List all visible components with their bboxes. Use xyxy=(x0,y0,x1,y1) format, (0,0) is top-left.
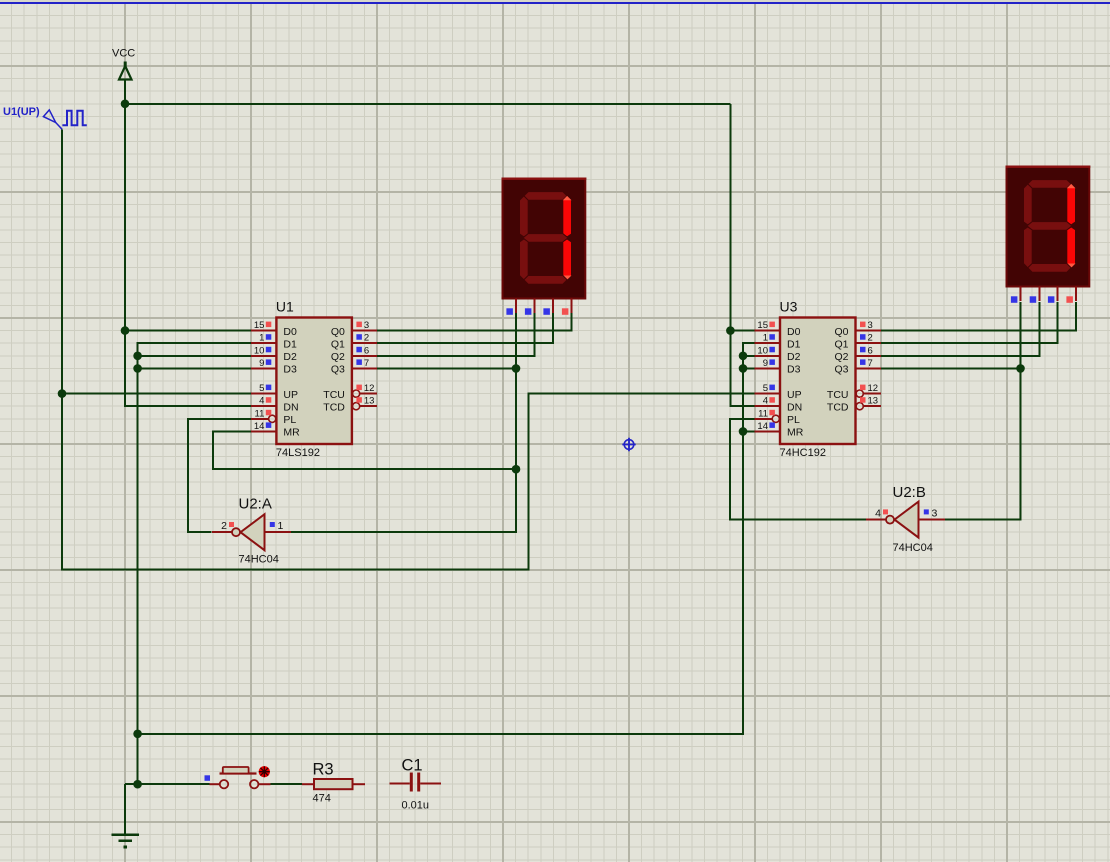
svg-text:Q1: Q1 xyxy=(331,338,345,350)
svg-text:74LS192: 74LS192 xyxy=(276,447,320,459)
wire U3 D3 (pin 9) branch xyxy=(743,367,756,369)
svg-text:PL: PL xyxy=(283,414,296,426)
svg-text:MR: MR xyxy=(787,427,804,439)
wire U3 Q1 (pin 2) to display2 pin 3 xyxy=(881,302,1058,343)
pin 5 UP of U3 xyxy=(755,383,802,401)
svg-text:Q1: Q1 xyxy=(834,338,848,350)
wire clock down, across y=569, up to U3 UP (pin 5) xyxy=(62,130,756,570)
svg-text:Q0: Q0 xyxy=(331,326,345,338)
pin 4 DN of U3 xyxy=(755,396,802,414)
wire ground stem xyxy=(124,784,126,834)
svg-text:6: 6 xyxy=(868,345,873,356)
svg-text:1: 1 xyxy=(259,333,264,344)
pin 13 TCD of U1 xyxy=(323,396,377,414)
pin 14 MR of U1 xyxy=(251,421,300,439)
svg-text:PL: PL xyxy=(787,414,800,426)
segment g of DISP1 xyxy=(523,234,568,243)
svg-text:U2:B: U2:B xyxy=(893,484,926,501)
ground xyxy=(112,835,139,847)
svg-text:9: 9 xyxy=(763,358,768,369)
svg-text:11: 11 xyxy=(758,408,768,419)
svg-text:TCU: TCU xyxy=(827,389,849,401)
pin 4 of DISP1 xyxy=(562,299,572,315)
wire U1 D1 (pin 1) + D-bus down to ground rail xyxy=(138,343,252,784)
power VCC xyxy=(112,48,135,80)
wire VCC down to U1 DN (pin 4) xyxy=(125,104,251,406)
wire U2:B input up to display2 pin 1 xyxy=(945,302,1021,520)
pin 1 D1 of U1 xyxy=(251,333,297,351)
svg-text:13: 13 xyxy=(364,396,375,407)
node junction (125,103.8) xyxy=(121,100,130,109)
svg-text:474: 474 xyxy=(313,793,331,805)
svg-text:14: 14 xyxy=(757,421,768,432)
svg-text:Q3: Q3 xyxy=(331,364,345,376)
svg-text:7: 7 xyxy=(868,358,873,369)
sheet border (blue) xyxy=(0,0,1110,4)
wire U3 PL (pin 11) to U2:B output xyxy=(730,419,867,520)
svg-text:15: 15 xyxy=(254,320,265,331)
svg-text:D3: D3 xyxy=(283,364,297,376)
node junction (62,393.6) xyxy=(58,389,67,398)
pin 2 of DISP1 xyxy=(525,299,535,315)
pin 4 DN of U1 xyxy=(251,396,298,414)
segment d of DISP2 xyxy=(1028,264,1071,273)
svg-text:C1: C1 xyxy=(402,757,423,775)
pin 10 D2 of U3 xyxy=(755,345,801,363)
segment a of DISP1 xyxy=(524,192,567,201)
display DISP1 7-segment xyxy=(502,178,587,315)
svg-text:1: 1 xyxy=(763,333,768,344)
svg-text:UP: UP xyxy=(787,389,802,401)
svg-text:2: 2 xyxy=(221,520,227,532)
svg-text:11: 11 xyxy=(255,408,265,419)
svg-text:D3: D3 xyxy=(787,364,801,376)
wire U3 Q0 (pin 3) to display2 pin 4 xyxy=(881,302,1077,331)
inverter gate U2:A 74HC04 xyxy=(212,496,291,566)
resistor R3 474 xyxy=(302,761,365,805)
wire U3 D1 + D-bus down and across bottom y=734 xyxy=(138,343,756,734)
svg-text:9: 9 xyxy=(259,358,264,369)
svg-text:D1: D1 xyxy=(283,338,297,350)
pin 4 of DISP2 xyxy=(1066,287,1076,303)
wire U3 Q3 (pin 7) to node xyxy=(881,367,1021,369)
svg-text:DN: DN xyxy=(787,401,802,413)
wire U1 MR (pin 14) to display/Q3 net xyxy=(213,431,516,469)
wire U3 D2 (pin 10) branch xyxy=(743,355,756,357)
segment c of DISP2 xyxy=(1067,227,1076,268)
wire U1 Q0 (pin 3) to display1 pin 4 xyxy=(377,313,571,331)
pin 12 TCU of U1 xyxy=(323,383,377,401)
svg-text:DN: DN xyxy=(283,401,298,413)
wire U2:A input up to display1 pin 1 xyxy=(290,313,517,532)
segment e of DISP2 xyxy=(1024,227,1033,268)
display DISP2 7-segment xyxy=(1006,166,1091,303)
svg-text:D2: D2 xyxy=(283,351,297,363)
svg-text:U1: U1 xyxy=(276,299,294,315)
svg-text:4: 4 xyxy=(259,396,264,407)
svg-text:1: 1 xyxy=(278,520,284,532)
svg-text:R3: R3 xyxy=(313,761,334,779)
pin 7 Q3 of U1 xyxy=(331,358,377,376)
segment g of DISP2 xyxy=(1027,222,1072,231)
svg-text:TCU: TCU xyxy=(323,389,345,401)
pin 2 Q1 of U1 xyxy=(331,333,377,351)
IC U1 74LS192 counter xyxy=(251,299,377,460)
pin 10 D2 of U1 xyxy=(251,345,297,363)
segment b of DISP2 xyxy=(1067,184,1076,225)
svg-text:0.01u: 0.01u xyxy=(402,800,430,812)
svg-text:4: 4 xyxy=(875,507,881,519)
svg-text:D0: D0 xyxy=(787,326,801,338)
svg-text:3: 3 xyxy=(932,507,938,519)
wire top VCC rail y=104 xyxy=(125,103,730,105)
pin 11 PL of U1 xyxy=(251,408,296,426)
inverter gate U2:B 74HC04 xyxy=(866,484,945,554)
node junction (1020.5,368.4) xyxy=(1016,364,1025,373)
pin 6 Q2 of U3 xyxy=(834,345,880,363)
pin 7 Q3 of U3 xyxy=(834,358,880,376)
svg-text:VCC: VCC xyxy=(112,48,135,60)
wire U1 Q3 (pin 7) to node xyxy=(377,367,516,369)
generator U1(UP) clock source xyxy=(3,106,87,129)
svg-text:3: 3 xyxy=(868,320,873,331)
svg-text:Q3: Q3 xyxy=(834,364,848,376)
svg-text:74HC04: 74HC04 xyxy=(239,554,279,566)
wire U1 D0 (pin 15) to VCC line xyxy=(125,330,251,332)
pin 5 UP of U1 xyxy=(251,383,298,401)
svg-text:10: 10 xyxy=(254,345,265,356)
sheet origin marker xyxy=(622,438,635,451)
node junction (516,469.2) xyxy=(512,465,521,474)
wire push button to R3 xyxy=(271,783,303,785)
pin 12 TCU of U3 xyxy=(827,383,881,401)
svg-text:Q2: Q2 xyxy=(834,351,848,363)
node junction (730.4,330.6) xyxy=(726,326,735,335)
segment a of DISP2 xyxy=(1028,180,1071,189)
pin 14 MR of U3 xyxy=(755,421,804,439)
wire U3 D0 (pin 15) branch xyxy=(730,330,755,332)
segment c of DISP1 xyxy=(563,239,572,280)
wire U1 PL (pin 11) to U2:A output xyxy=(188,419,251,532)
node junction (137.6,784.2) xyxy=(133,780,142,789)
node junction (743,368.4) xyxy=(739,364,748,373)
wire VCC down to U3 DN (pin 4) xyxy=(730,104,755,406)
svg-text:74HC192: 74HC192 xyxy=(780,447,826,459)
svg-text:U3: U3 xyxy=(780,299,798,315)
svg-text:TCD: TCD xyxy=(827,401,849,413)
node junction (137.6,733.8) xyxy=(133,730,142,739)
pin 3 Q0 of U1 xyxy=(331,320,377,338)
wire U1 Q2 (pin 6) to display1 pin 2 xyxy=(377,313,534,356)
pin 2 of DISP2 xyxy=(1030,287,1040,303)
button actuator marker xyxy=(259,766,270,777)
svg-text:2: 2 xyxy=(364,333,369,344)
svg-text:5: 5 xyxy=(259,383,264,394)
node junction (516,368.4) xyxy=(512,364,521,373)
svg-text:13: 13 xyxy=(868,396,879,407)
pin 1 of DISP1 xyxy=(506,299,516,315)
pin 6 Q2 of U1 xyxy=(331,345,377,363)
pin 13 TCD of U3 xyxy=(827,396,881,414)
pin 3 Q0 of U3 xyxy=(834,320,880,338)
segment f of DISP2 xyxy=(1024,184,1033,225)
node junction (137.6,368.4) xyxy=(133,364,142,373)
wire U3 Q2 (pin 6) to display2 pin 2 xyxy=(881,302,1040,356)
svg-text:D1: D1 xyxy=(787,338,801,350)
svg-text:4: 4 xyxy=(763,396,768,407)
segment e of DISP1 xyxy=(520,239,529,280)
IC U3 74HC192 counter xyxy=(755,299,881,460)
pin 15 D0 of U3 xyxy=(755,320,801,338)
capacitor C1 0.01u xyxy=(390,757,442,812)
pin 1 of DISP2 xyxy=(1011,287,1021,303)
node junction (125,330.6) xyxy=(121,326,130,335)
wire U1 D2 (pin 10) branch xyxy=(138,355,252,357)
svg-text:U1(UP): U1(UP) xyxy=(3,106,40,118)
svg-text:MR: MR xyxy=(283,427,300,439)
node junction (137.6,355.8) xyxy=(133,352,142,361)
svg-text:3: 3 xyxy=(364,320,369,331)
pin 1 D1 of U3 xyxy=(755,333,801,351)
wire VCC stem xyxy=(124,80,126,104)
svg-text:6: 6 xyxy=(364,345,369,356)
wire U1 D3 (pin 9) branch xyxy=(138,367,252,369)
svg-text:14: 14 xyxy=(254,421,265,432)
svg-text:15: 15 xyxy=(757,320,768,331)
segment f of DISP1 xyxy=(520,196,529,237)
pin 3 of DISP1 xyxy=(543,299,553,315)
svg-text:TCD: TCD xyxy=(323,401,345,413)
pin 11 PL of U3 xyxy=(755,408,800,426)
push button xyxy=(205,766,271,788)
wire U1 Q1 (pin 2) to display1 pin 3 xyxy=(377,313,553,343)
svg-text:7: 7 xyxy=(364,358,369,369)
svg-text:D2: D2 xyxy=(787,351,801,363)
svg-text:12: 12 xyxy=(364,383,375,394)
svg-text:Q2: Q2 xyxy=(331,351,345,363)
svg-text:D0: D0 xyxy=(283,326,297,338)
pin 9 D3 of U3 xyxy=(755,358,801,376)
segment d of DISP1 xyxy=(524,276,567,285)
svg-text:U2:A: U2:A xyxy=(239,496,272,513)
pin 15 D0 of U1 xyxy=(251,320,297,338)
svg-text:2: 2 xyxy=(868,333,873,344)
node junction (743,431.4) xyxy=(739,427,748,436)
wire U3 MR (pin 14) branch xyxy=(743,430,756,432)
pin 2 Q1 of U3 xyxy=(834,333,880,351)
node junction (743,355.8) xyxy=(739,352,748,361)
svg-text:UP: UP xyxy=(283,389,298,401)
svg-text:12: 12 xyxy=(868,383,879,394)
wire ground rail to push button xyxy=(125,783,210,785)
wire clock to U1 UP (pin 5) xyxy=(62,393,251,395)
svg-text:Q0: Q0 xyxy=(834,326,848,338)
pin 9 D3 of U1 xyxy=(251,358,297,376)
segment b of DISP1 xyxy=(563,196,572,237)
svg-text:10: 10 xyxy=(757,345,768,356)
pin 3 of DISP2 xyxy=(1048,287,1058,303)
svg-text:74HC04: 74HC04 xyxy=(893,542,933,554)
svg-text:5: 5 xyxy=(763,383,768,394)
